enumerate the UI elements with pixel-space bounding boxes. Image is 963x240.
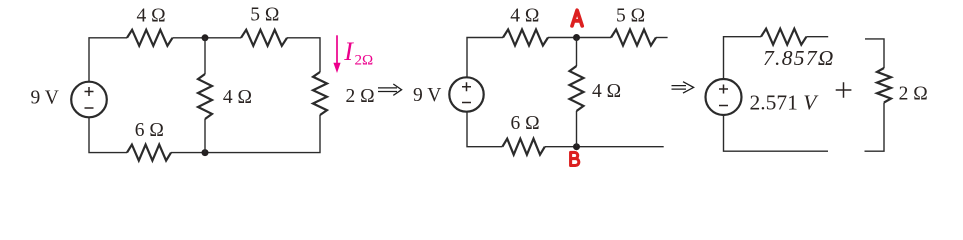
label node B (red) xyxy=(571,152,579,165)
source V3 minus sign xyxy=(719,105,728,107)
resistor R 7.857ohm xyxy=(761,29,806,45)
resistor R 6ohm bottom xyxy=(127,145,171,161)
plus sign between circuits xyxy=(836,82,852,98)
wire dangling end top right (mid) xyxy=(656,37,668,39)
svg-text:6 Ω: 6 Ω xyxy=(511,113,540,134)
wire bottom (thevenin, open end) xyxy=(724,115,829,151)
resistor R 2ohm load xyxy=(877,68,891,103)
svg-text:2 Ω: 2 Ω xyxy=(346,86,375,107)
source V2 plus sign xyxy=(462,82,471,91)
resistor R 5ohm top-right xyxy=(241,30,287,46)
resistor R 2ohm right vertical xyxy=(313,72,327,115)
svg-text:4 Ω: 4 Ω xyxy=(510,5,539,26)
wire bottom to node B and dangling right (mid) xyxy=(545,146,664,148)
wire left-bottom segment (mid) xyxy=(467,112,502,147)
source V1 plus sign xyxy=(85,87,94,96)
resistor R 5ohm top (mid, dangling) xyxy=(611,30,656,46)
source V3 plus sign xyxy=(719,85,728,94)
resistor R 4ohm middle vertical (mid) xyxy=(570,66,584,111)
wire top-left segment (mid) xyxy=(467,38,503,78)
resistor R 4ohm top-left xyxy=(127,30,173,46)
wire top-right corner xyxy=(287,38,320,72)
resistor R 4ohm middle vertical xyxy=(198,74,212,119)
svg-text:5 Ω: 5 Ω xyxy=(616,5,645,26)
2ohm load bottom terminal bracket xyxy=(865,103,885,152)
svg-text:5 Ω: 5 Ω xyxy=(250,4,279,25)
resistor R 4ohm top (mid) xyxy=(503,30,548,46)
source V2 minus sign xyxy=(462,102,471,104)
voltage source V2 9V circle (mid) xyxy=(449,77,483,111)
wire top-left segment (thevenin) xyxy=(724,37,762,79)
wire middle branch top stub (mid) xyxy=(576,38,578,67)
wire top open end (thevenin) xyxy=(806,36,828,38)
source V1 minus sign xyxy=(85,107,94,109)
svg-text:4 Ω: 4 Ω xyxy=(592,81,621,102)
label node A (red) xyxy=(572,10,582,26)
implies arrow 2 xyxy=(672,82,694,93)
svg-text:2 Ω: 2 Ω xyxy=(899,84,928,105)
svg-text:4 Ω: 4 Ω xyxy=(223,87,252,108)
wire middle branch top stub xyxy=(204,38,206,74)
2ohm load top terminal bracket xyxy=(865,39,884,68)
svg-text:2Ω: 2Ω xyxy=(355,53,374,69)
svg-text:4 Ω: 4 Ω xyxy=(137,6,166,27)
implies arrow 1 xyxy=(378,84,402,95)
svg-text:9 V: 9 V xyxy=(413,85,441,106)
node junction dot top xyxy=(202,34,209,41)
voltage source V1 9V circle xyxy=(71,82,107,118)
wire top-left segment (TL corner to R1) xyxy=(89,38,127,82)
resistor R 6ohm bottom (mid) xyxy=(502,139,544,155)
svg-text:2.571 V: 2.571 V xyxy=(750,90,820,114)
wire middle branch bottom stub (mid) xyxy=(576,111,578,147)
svg-text:7.857Ω: 7.857Ω xyxy=(763,46,835,70)
wire left-bottom segment xyxy=(89,117,127,152)
node junction dot bottom xyxy=(202,149,209,156)
wire top middle (R1 to R2) xyxy=(173,37,242,39)
wire top to node A xyxy=(548,37,611,39)
node B dot xyxy=(573,143,580,150)
wire middle branch bottom stub xyxy=(204,119,206,153)
voltage source V3 2.571V circle xyxy=(706,79,742,115)
svg-text:I: I xyxy=(343,37,354,66)
node A dot xyxy=(573,34,580,41)
svg-text:6 Ω: 6 Ω xyxy=(135,120,164,141)
current arrow I2ohm magenta xyxy=(336,35,338,64)
wire bottom (R3 to BR corner) xyxy=(171,115,320,153)
svg-text:9 V: 9 V xyxy=(31,87,59,108)
